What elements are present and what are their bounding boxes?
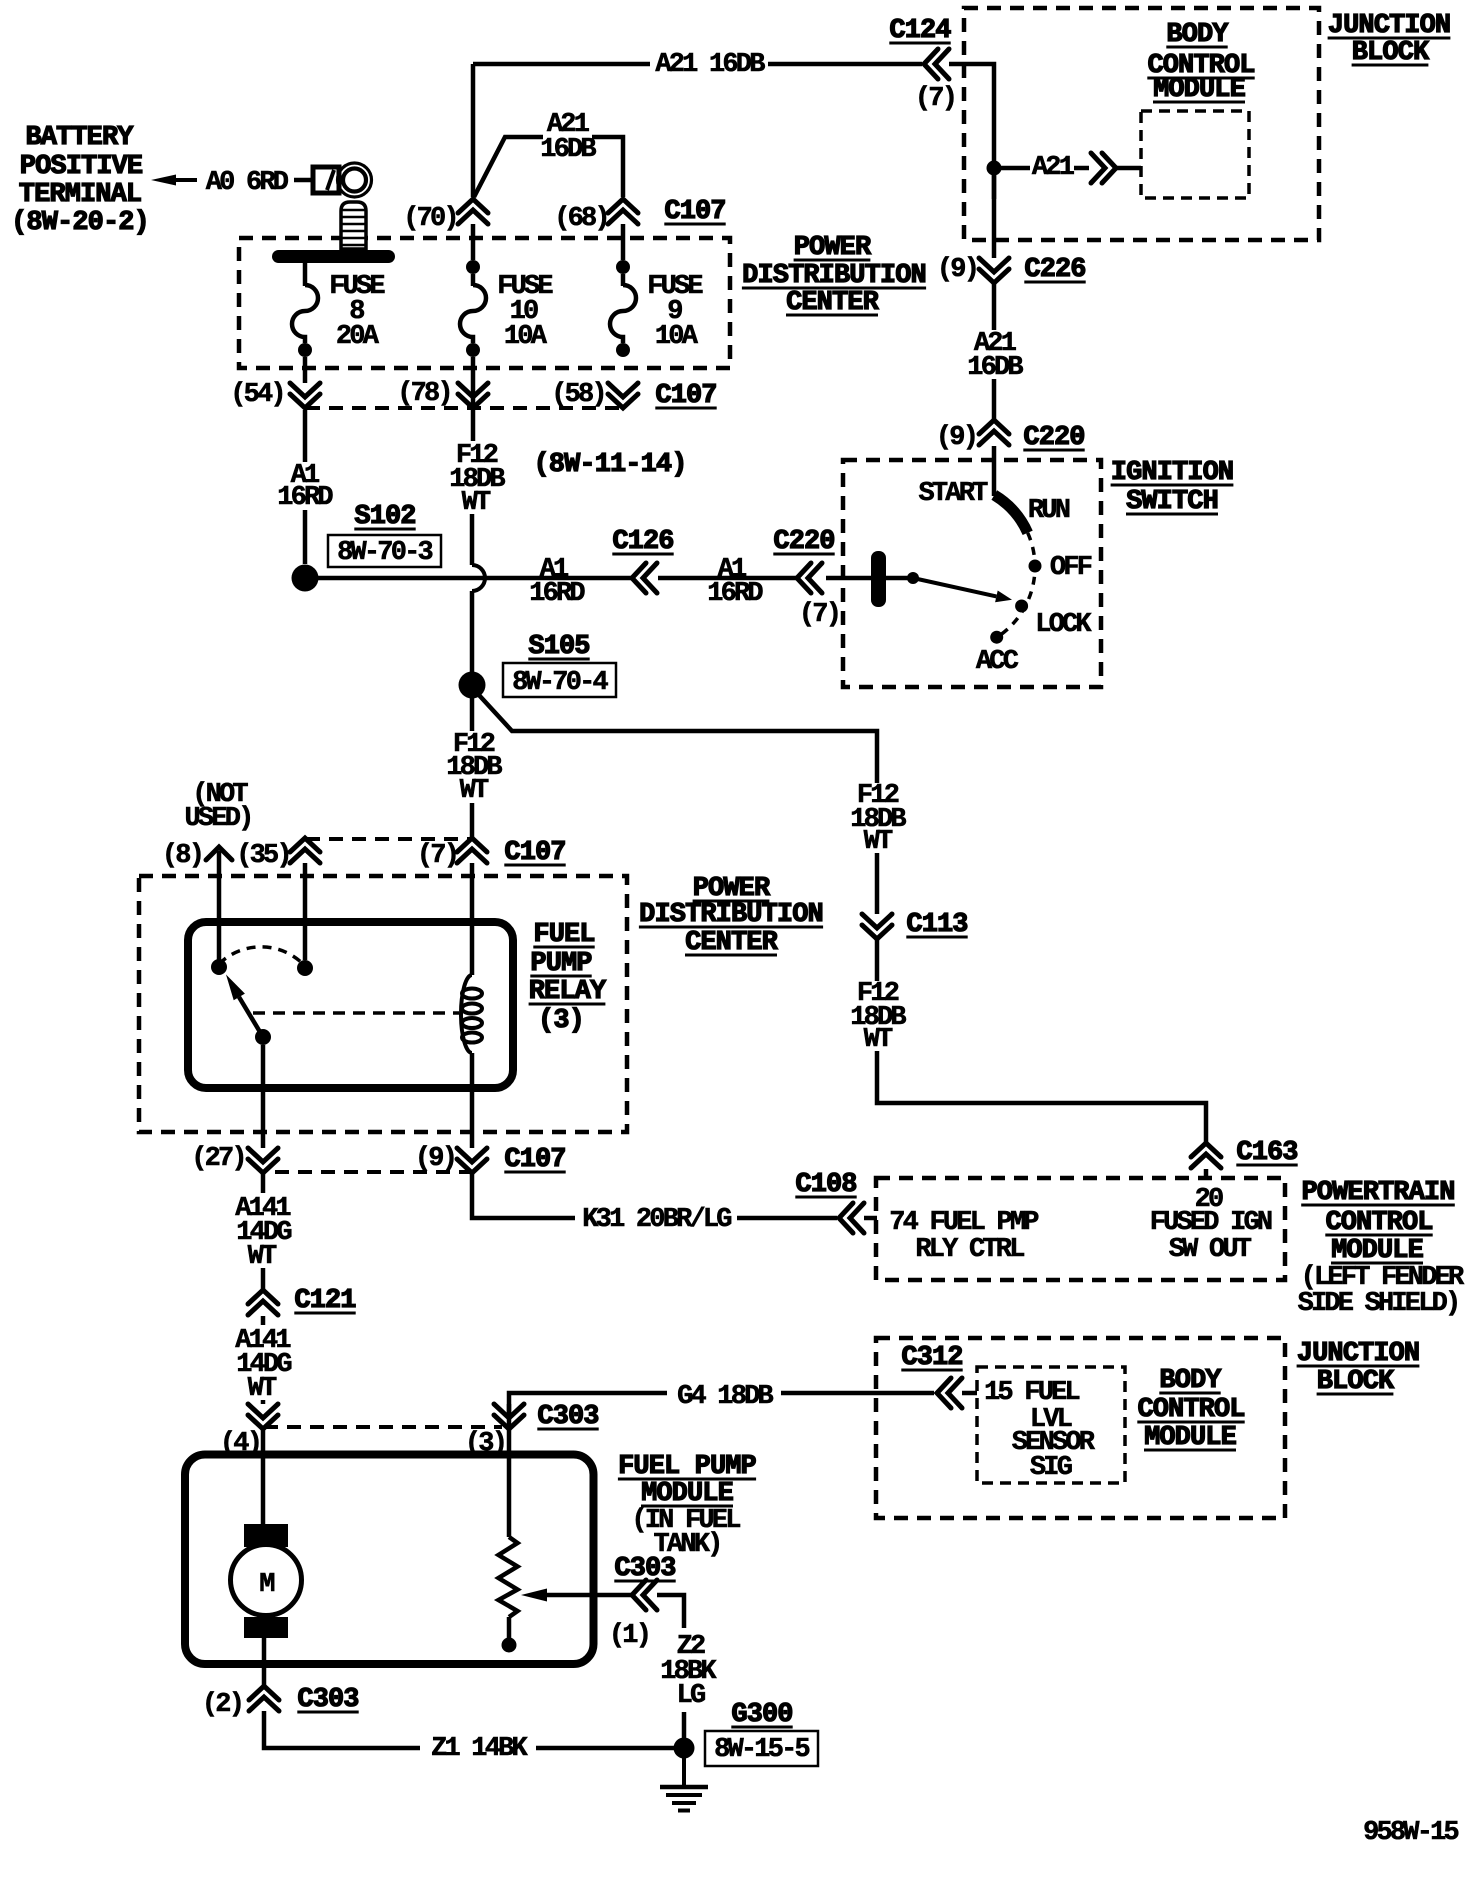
header body control module 2 line1 [1159,1366,1222,1396]
C107 lower connector dashed line [306,406,624,410]
ignition ACC contact [990,631,1003,644]
ground symbol [682,1748,686,1786]
svg-text:(8W-20-2): (8W-20-2) [11,208,149,238]
relay fixed contact (pin35) [297,960,313,976]
arrow from battery label [151,175,176,186]
wire motor feed into module [261,1429,266,1524]
svg-text:ACC: ACC [976,647,1019,677]
wire F12 branch diagonal from S105 [478,694,877,783]
wire A141 below C107-27 [261,1173,266,1193]
connector label C124 [889,16,951,46]
svg-text:(70): (70) [403,204,457,234]
ignition switch dashed arc RUN-ACC [997,533,1035,638]
connector label C126 [612,527,673,557]
wire G4 into BCM pin box [962,1391,977,1396]
wire A21 into ignition switch [992,446,997,496]
fuel pump motor brush top [244,1524,288,1547]
header body control module line3 [1153,75,1246,105]
connector C226 [979,258,1009,283]
connector label C108 [795,1170,856,1200]
junction dot above fuse 10 [466,260,480,274]
wire A21 horizontal left segment [473,62,650,67]
battery terminal lug body [313,167,339,193]
wire A21 between label and C220 [992,379,997,420]
connector label C220 (horizontal) [773,527,834,557]
wire K31 from C107-9 [472,1174,575,1218]
powertrain control module box [876,1178,1285,1280]
connector C107 cavity 70 [458,199,488,224]
connector label C107 (top) [664,197,725,227]
battery stud with threads [341,202,366,249]
relay dashed travel arc [219,947,305,966]
connector C113 [862,914,892,939]
svg-text:OFF: OFF [1050,553,1092,583]
header fuel pump module line1 [618,1452,757,1482]
connector label C107 (relay bottom) [504,1145,565,1175]
connector C303 cavity 1 halves [632,1580,657,1610]
fuel pump module outline [185,1455,594,1665]
relay label line3 [529,977,607,1007]
ignition wiper arm with arrowhead [913,578,996,596]
wire G4 from sender up [507,1404,512,1429]
junction dot below fuse 8 [298,343,312,357]
svg-text:WT: WT [864,827,893,857]
svg-text:FUSED IGN: FUSED IGN [1150,1208,1272,1238]
svg-text:958W-15: 958W-15 [1363,1818,1458,1848]
wire into fuse 10 [471,274,476,286]
svg-text:USED): USED) [184,804,251,834]
junction block box (lower) [876,1338,1285,1518]
connector C163 [1191,1143,1221,1168]
splice label S105 [528,632,589,662]
svg-text:(8W-11-14): (8W-11-14) [533,450,686,480]
connector C107 cavity 54 [290,383,320,408]
header body control module 2 line3 [1144,1423,1237,1453]
svg-text:(78): (78) [397,379,451,409]
wire Z1 to ground junction [536,1746,678,1751]
connector C121 [248,1290,278,1315]
C303 connector dashed line [264,1425,502,1429]
wire hop over A1 wire [472,565,485,591]
junction dot A21 in junction block [987,161,1002,176]
connector C107 cavity 58 [608,383,638,408]
svg-text:(9): (9) [415,1144,455,1174]
fuel pump motor body [231,1545,302,1616]
svg-text:WT: WT [248,1242,277,1272]
connector C124 halves [924,49,949,79]
wire Z1 from motor [264,1711,420,1748]
connector C107 cavity 8 (single) [206,847,232,860]
header powertrain control module line1 [1301,1178,1455,1208]
svg-text:SIG: SIG [1030,1453,1072,1483]
svg-text:16RD: 16RD [529,579,585,609]
header block 2 [1317,1367,1395,1397]
connector label C226 [1024,255,1085,285]
wire A141 below C121 [261,1316,266,1325]
connector label C303 (bottom) [297,1685,358,1715]
svg-text:10A: 10A [504,322,548,352]
svg-text:WT: WT [864,1025,893,1055]
svg-text:(3): (3) [538,1006,584,1036]
splice S105 reference box [503,663,616,697]
svg-text:16RD: 16RD [707,579,763,609]
wire F12 to relay coil [470,863,475,975]
svg-text:8W-15-5: 8W-15-5 [714,1735,809,1765]
sender wiper arrow line [542,1593,632,1598]
wire F12 to hop [470,514,475,565]
wire motor to module bottom [262,1637,267,1686]
wire Z2 from C303-1 [657,1595,684,1628]
battery terminal ring [338,163,372,197]
connector C108 halves [839,1203,864,1233]
connector label C303 (top) [537,1402,598,1432]
wire G4 horizontal left seg [509,1393,667,1418]
relay label line1 [533,920,594,950]
wire relay coil to C107-9 [470,1053,475,1148]
ignition switch thick contact arc START-RUN [994,495,1027,533]
svg-text:16DB: 16DB [540,135,596,165]
pointer line left to C107-70 [474,137,543,197]
wire A21 into junction block [949,64,994,199]
relay coil [461,975,472,1053]
ground label G300 [731,1700,792,1730]
connector C303 cavity 2 [249,1686,279,1711]
header junction [1328,11,1451,41]
wire C107-68 to fuse 9 [621,224,626,260]
wire A21 to BCM right seg [1116,166,1141,171]
wire F12 to C163 [877,1051,1206,1143]
C107 connector dashed line (relay) [306,837,471,841]
connector label C121 [294,1286,356,1316]
connector C126 halves [632,563,657,593]
header center (PDC top) [786,288,880,318]
wire A1 S102 to C126 [318,576,632,581]
wire A1 fuse8 to C107-54 [303,357,308,383]
pointer line right to C107-68 [592,137,623,197]
header center (PDC relay) [685,928,779,958]
svg-text:10A: 10A [655,322,699,352]
connector C220 halves [797,563,822,593]
ignition switch box [843,460,1101,687]
svg-text:74 FUEL PMP: 74 FUEL PMP [889,1208,1039,1238]
svg-text:LOCK: LOCK [1035,610,1092,640]
header distribution (PDC relay) [639,900,823,930]
connector C107 cavity 7 [457,838,487,863]
svg-text:Z1 14BK: Z1 14BK [431,1734,528,1764]
body control module pin box [1141,111,1249,198]
junction dot above fuse 9 [616,260,630,274]
relay label line2 [530,949,592,979]
wire A21 horizontal right segment [768,62,922,67]
svg-text:8W-70-3: 8W-70-3 [337,538,432,568]
fuel level sender resistor [499,1537,518,1617]
connector into BCM [1091,153,1116,183]
svg-text:(68): (68) [554,204,608,234]
connector label C113 [906,910,967,940]
C107 bottom connector dashed line [275,1170,470,1174]
svg-text:(9): (9) [937,255,977,285]
svg-text:15 FUEL: 15 FUEL [984,1378,1079,1408]
wire A1 C126 to C220 [658,576,796,581]
connector label C220 (vertical) [1023,423,1084,453]
relay coil dashed actuation line [253,1011,459,1015]
ground junction dot G300 [674,1738,695,1759]
wire A21 to BCM mid seg [1074,166,1089,171]
svg-text:LG: LG [677,1681,705,1711]
svg-text:16RD: 16RD [277,483,333,513]
svg-text:SIDE SHIELD): SIDE SHIELD) [1298,1289,1459,1319]
header body control module 2 line2 [1137,1395,1244,1425]
wire Z2 to ground junction [682,1712,687,1740]
relay common contact [255,1029,271,1045]
connector label C107 (below PDC) [655,381,716,411]
connector C303 cavity 3 [494,1404,524,1429]
wire C107-70 to fuse 10 [471,224,476,260]
wire A1 into ignition to key bar [826,576,871,581]
svg-text:G4 18DB: G4 18DB [677,1382,773,1412]
svg-text:(7): (7) [915,84,955,114]
ground reference box [705,1731,818,1766]
svg-text:RUN: RUN [1028,496,1070,526]
header power (PDC relay) [693,874,771,904]
svg-text:(7): (7) [799,600,839,630]
wire A21 below junction block [992,175,997,258]
svg-text:(7): (7) [417,841,457,871]
svg-text:A21 16DB: A21 16DB [655,50,765,80]
relay fixed contact (pin8) [211,959,227,975]
wire A141 to C303 [261,1400,266,1404]
ignition wiper pivot [907,572,919,584]
fuse 9 element [610,285,636,343]
wire A1 label to S102 [303,510,308,564]
svg-text:(9): (9) [936,423,976,453]
header powertrain control module line3 [1331,1236,1424,1266]
ignition LOCK contact [1015,600,1028,613]
wire resistor to end dot [507,1617,512,1639]
fuel pump motor brush bottom [244,1617,288,1638]
svg-text:A0 6RD: A0 6RD [206,168,289,198]
header ignition switch line1 [1111,458,1234,488]
wire A21 to BCM left seg [1001,166,1030,171]
wire G4 horizontal right seg [781,1391,934,1396]
connector C107 cavity 9 [457,1148,487,1173]
wire F12 below C113 [875,940,880,981]
svg-text:WT: WT [460,776,489,806]
svg-text:TERMINAL: TERMINAL [19,180,141,210]
connector C107 cavity 78 [458,383,488,408]
wire A21 drop to C107-70 [471,64,476,197]
wire A21 between C226 and label [992,284,997,330]
sender wiper end dot [502,1638,517,1653]
svg-text:(27): (27) [191,1144,245,1174]
wire fused ign sw out into PCM [1204,1169,1209,1178]
header ignition switch line2 [1126,487,1218,517]
wire busbar to fuse 8 [303,263,308,286]
power distribution center box (relay) [139,876,627,1132]
connector C312 halves [937,1378,962,1408]
power distribution center box (top) [239,238,730,368]
svg-text:(8): (8) [162,841,202,871]
svg-text:(2): (2) [202,1690,242,1720]
splice S102 reference box [328,535,441,567]
connector C220 (vertical) [979,420,1009,445]
svg-text:BATTERY: BATTERY [25,123,134,153]
connector label C163 [1236,1138,1297,1168]
splice S105 [459,672,486,699]
wire pin35 into relay [303,863,308,960]
header distribution (PDC top) [742,261,926,291]
svg-text:(1): (1) [609,1621,649,1651]
wire F12 label to C107-7 [470,803,475,838]
wire A141 to C121 [261,1268,266,1290]
header powertrain control module line2 [1325,1208,1432,1238]
connector label C107 (relay top) [504,838,565,868]
header body control module line2 [1147,51,1254,81]
svg-text:POSITIVE: POSITIVE [20,152,143,182]
wire into fuse 9 [621,274,626,286]
svg-text:20A: 20A [336,322,380,352]
wire F12 below S105 [470,698,475,731]
fuse 8 element [292,285,318,343]
ignition OFF contact [1029,560,1042,573]
connector label C303 (sender) [614,1554,675,1584]
wire sender feed into resistor [507,1429,512,1537]
wire K31 into PCM [864,1216,877,1221]
junction dot below fuse 9 [616,343,630,357]
connector C107 cavity 35 [290,838,320,863]
splice S102 [292,565,319,592]
header body control module line1 [1166,20,1229,50]
wire A0 to battery lug [294,178,313,183]
fuel lvl sensor sig pin box [977,1367,1125,1483]
junction dot below fuse 10 [466,343,480,357]
connector C303 cavity 4 [248,1404,278,1429]
battery bus bar [272,250,395,263]
ignition key cylinder bar [871,551,886,607]
junction block box (top right) [964,8,1319,240]
wire relay common down [261,1045,266,1148]
svg-text:WT: WT [248,1374,277,1404]
wire F12 right to C113 [875,853,880,914]
svg-text:START: START [918,479,988,509]
header fuel pump module line2 [641,1479,734,1509]
header power (PDC top) [794,233,872,263]
svg-text:SW OUT: SW OUT [1169,1235,1252,1265]
svg-text:WT: WT [462,488,491,518]
wire key bar to wiper pivot [886,576,908,581]
header block [1352,38,1430,68]
svg-text:M: M [259,1570,274,1600]
connector label C312 [901,1343,962,1373]
wire F12 hop to S105 [470,591,475,672]
svg-text:RLY CTRL: RLY CTRL [915,1235,1024,1265]
svg-text:8W-70-4: 8W-70-4 [512,668,608,698]
connector C107 cavity 68 [608,199,638,224]
wire pin8 stub [217,851,222,960]
svg-text:(58): (58) [551,380,605,410]
svg-text:K31 20BR/LG: K31 20BR/LG [582,1205,731,1235]
wire K31 to C108 [737,1216,837,1221]
relay movable arm with arrowhead [239,997,263,1037]
fuse 10 element [460,285,486,343]
wire F12 fuse10 down [471,357,476,441]
svg-text:A21: A21 [1032,153,1075,183]
header junction 2 [1297,1339,1420,1369]
svg-text:(54): (54) [230,380,284,410]
fuel pump relay outline [188,922,513,1088]
splice label S102 [354,502,415,532]
svg-text:(35): (35) [236,841,290,871]
connector C107 cavity 27 [248,1148,278,1173]
wire A1 below C107 [303,410,308,462]
svg-text:16DB: 16DB [967,353,1023,383]
